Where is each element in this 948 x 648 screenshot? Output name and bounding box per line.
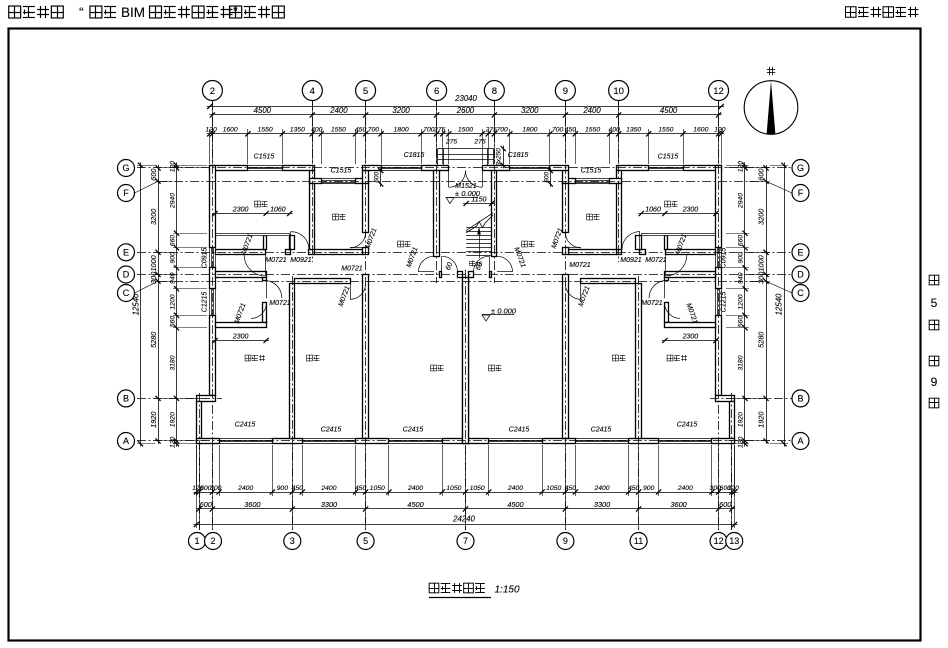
grid axis line C — [158, 281, 766, 283]
svg-text:5: 5 — [363, 86, 368, 97]
grid bubble G left — [118, 160, 135, 177]
svg-text:2400: 2400 — [593, 485, 609, 492]
svg-text:600: 600 — [200, 500, 212, 509]
grid bubble C left — [118, 285, 135, 302]
bottom dimension chain detailed — [192, 485, 739, 495]
interior wall grid 4 lower — [310, 184, 315, 250]
svg-text:120: 120 — [728, 485, 740, 492]
left dimension overall 12540 — [132, 162, 144, 446]
bottom wall A segment 3 — [356, 439, 389, 444]
svg-text:700: 700 — [368, 127, 380, 134]
window tag C2415 no.3 — [403, 427, 424, 434]
svg-text:24240: 24240 — [452, 515, 475, 524]
overall dimension 24240 label — [452, 515, 475, 524]
svg-text:1000: 1000 — [149, 255, 158, 271]
svg-text:7: 7 — [463, 536, 468, 546]
svg-text:3600: 3600 — [244, 500, 260, 509]
exterior wall G segment A (right mirror) — [684, 166, 722, 171]
room label living right — [489, 365, 502, 371]
hall wall at D (right mirror) — [665, 272, 716, 278]
svg-text:700: 700 — [423, 127, 435, 134]
window C2415 no.3 (right mirror) — [489, 438, 543, 443]
wall connector at grid 4 (right mirror) — [617, 171, 622, 184]
niche south wall (right mirror) — [665, 323, 716, 328]
room label living left — [431, 365, 444, 371]
svg-text:2940: 2940 — [738, 193, 745, 209]
window C0915 right wall — [716, 248, 722, 268]
door tag M0721 dining right — [512, 246, 526, 269]
svg-text:4: 4 — [310, 86, 315, 97]
svg-text:C: C — [123, 288, 130, 298]
svg-text:600: 600 — [374, 171, 381, 182]
door tag M0721 kitchen left — [365, 227, 379, 250]
room label bedroom top-left — [255, 201, 268, 207]
svg-text:1800: 1800 — [394, 127, 409, 134]
niche inner door M0721 — [251, 303, 267, 319]
room label bedroom bottom-right — [613, 355, 626, 361]
interior wall grid 3 upper (right mirror) — [636, 236, 642, 250]
svg-text:2400: 2400 — [407, 485, 423, 492]
bedroom south wall segment 2 (right mirror) — [640, 250, 646, 255]
door tag M0721 horizontal left — [265, 257, 287, 264]
recessed wall F segment B (right mirror) — [563, 179, 576, 184]
svg-text:600: 600 — [149, 169, 158, 181]
svg-text:1060: 1060 — [270, 206, 286, 213]
window C1815 — [381, 165, 421, 170]
interior wall grid 4 lower (right mirror) — [617, 184, 622, 250]
grid axis line 11 — [638, 276, 640, 530]
svg-text:450: 450 — [355, 127, 367, 134]
window tag C1515 top left — [254, 154, 275, 161]
grid axis line 5 — [365, 101, 367, 530]
svg-text:C2415: C2415 — [677, 422, 698, 429]
grid bubble 2 bottom — [205, 533, 222, 550]
niche east wall upper stub — [263, 278, 267, 281]
svg-text:9: 9 — [563, 536, 568, 546]
grid bubble 5 top — [356, 81, 376, 101]
svg-text:1920: 1920 — [170, 412, 177, 427]
top dimension chain major — [209, 106, 721, 118]
grid bubble 4 top — [302, 81, 322, 101]
svg-text:C2415: C2415 — [235, 422, 256, 429]
svg-text:3600: 3600 — [670, 500, 686, 509]
svg-text:10: 10 — [613, 86, 624, 97]
window tag C1815 right — [508, 152, 529, 159]
window tag C0915 left — [202, 248, 209, 269]
svg-text:9: 9 — [931, 375, 938, 389]
svg-text:1200: 1200 — [738, 294, 745, 309]
room label kitchen left — [333, 214, 346, 220]
svg-text:1050: 1050 — [546, 485, 561, 492]
svg-text:900: 900 — [643, 485, 655, 492]
window tag C1215 left — [202, 292, 209, 313]
svg-text:300: 300 — [757, 272, 766, 284]
svg-text:3300: 3300 — [321, 500, 337, 509]
svg-text:BIM: BIM — [121, 5, 145, 20]
svg-text:1350: 1350 — [290, 127, 305, 134]
left exterior wall lower — [210, 316, 216, 396]
kitchen east wall grid 5 lower stub (right mirror) — [563, 248, 569, 255]
right dimension chain major — [757, 165, 769, 444]
grid bubble 12 top — [709, 81, 729, 101]
svg-text:1550: 1550 — [331, 127, 346, 134]
room label bedroom bottom-left — [307, 355, 320, 361]
door tag M0721 master door right — [641, 300, 663, 307]
wall connector at grid 4 — [310, 171, 315, 184]
header quote open — [79, 4, 84, 20]
entrance steps 3x250 — [438, 149, 494, 166]
window tag C1515 top right — [658, 154, 679, 161]
svg-text:600: 600 — [757, 169, 766, 181]
svg-text:120: 120 — [170, 161, 177, 173]
window C1515 recessed — [321, 179, 355, 184]
room label bedroom top-right — [665, 201, 678, 207]
svg-text:C1515: C1515 — [254, 154, 275, 161]
interior wall grid 5 lower — [363, 275, 369, 439]
svg-text:M0721: M0721 — [569, 262, 591, 269]
svg-text:M0921: M0921 — [290, 257, 312, 264]
door tag M0721 dining left — [406, 246, 420, 269]
svg-text:3300: 3300 — [594, 500, 610, 509]
bedroom south wall segment 3 — [309, 250, 315, 255]
svg-text:C1515: C1515 — [658, 154, 679, 161]
bedroom south wall segment 1 (right mirror) — [666, 250, 716, 255]
svg-text:700: 700 — [552, 127, 564, 134]
grid bubble 9 bottom — [557, 533, 574, 550]
left exterior wall bottom section (right mirror) — [730, 402, 735, 444]
kitchen east wall grid 5 lower stub — [363, 248, 369, 255]
door tag M0721 bedroom top-left — [241, 233, 255, 256]
window tag C2415 no.5 — [591, 427, 612, 434]
svg-text:M1521: M1521 — [455, 183, 477, 190]
right dimension chain detailed — [738, 161, 748, 448]
header title text part 4 一级试题 — [230, 6, 285, 18]
door tag M0721 bedroom C wall left — [338, 285, 352, 308]
kitchen door M0721 in grid5 wall — [350, 232, 366, 248]
grid bubble 2 top — [202, 81, 222, 101]
grid bubble A left — [118, 433, 135, 450]
grid bubble A right — [792, 433, 809, 450]
svg-text:M0721: M0721 — [645, 257, 667, 264]
bathroom door M0721 at E wall (right mirror) — [622, 232, 640, 250]
grid bubble 13 bottom — [726, 533, 743, 550]
window tag C2415 no.6 — [677, 422, 698, 429]
svg-text:4500: 4500 — [254, 106, 272, 115]
grid bubble E left — [118, 244, 135, 261]
party wall grid 7 — [463, 278, 469, 444]
svg-text:C2415: C2415 — [509, 427, 530, 434]
stair hall south wall at D segment 2 — [458, 272, 463, 278]
svg-text:± 0.000: ± 0.000 — [455, 189, 481, 198]
header text right (China Graphics Society) — [846, 7, 919, 18]
kitchen south wall — [315, 250, 363, 255]
svg-text:11: 11 — [634, 536, 643, 546]
header quote close — [233, 4, 238, 20]
svg-text:2300: 2300 — [682, 333, 699, 340]
closet dimension 2300/1060 left — [212, 206, 293, 216]
svg-text:275: 275 — [473, 139, 486, 146]
grid axis line B left — [137, 398, 222, 400]
svg-text:9: 9 — [563, 86, 568, 97]
svg-text:B: B — [123, 394, 129, 404]
interior wall grid 3 — [290, 284, 295, 439]
svg-text:660: 660 — [170, 235, 177, 247]
left exterior wall upper — [210, 166, 216, 248]
svg-text:560: 560 — [738, 316, 745, 328]
svg-text:1550: 1550 — [258, 127, 273, 134]
svg-text:600: 600 — [543, 171, 550, 182]
left exterior wall bottom section — [197, 402, 202, 444]
steps dimension 3x250 — [496, 146, 506, 169]
closet dimension 2300/1060 right — [638, 206, 719, 216]
svg-text:900: 900 — [738, 252, 745, 264]
svg-text:F: F — [123, 188, 129, 198]
svg-text:450: 450 — [628, 485, 640, 492]
svg-text:3200: 3200 — [757, 209, 766, 225]
bubble leader C left — [135, 281, 159, 293]
window C2415 no.2 (right mirror) — [575, 438, 628, 443]
kitchen east wall grid 5 upper (right mirror) — [563, 184, 569, 233]
bedroom south wall segment 2 — [286, 250, 291, 255]
window C1515 recessed (right mirror) — [575, 179, 609, 184]
stair label 上16 glyph — [469, 261, 475, 267]
svg-text:8: 8 — [492, 86, 497, 97]
svg-text:3: 3 — [290, 536, 295, 546]
stair up arrow line — [477, 227, 481, 258]
svg-text:C0915: C0915 — [721, 248, 728, 269]
grid bubble B right — [792, 390, 809, 407]
svg-text:700: 700 — [496, 127, 508, 134]
header title text part 3 技能等级考试 — [150, 6, 233, 18]
bottom wall A segment 1 (right mirror) — [712, 439, 735, 444]
svg-text:120: 120 — [170, 436, 177, 448]
svg-text:1050: 1050 — [446, 485, 461, 492]
grid axis line A — [137, 440, 792, 442]
level marker living ±0.000 — [482, 307, 517, 322]
svg-text:5280: 5280 — [149, 332, 158, 348]
grid axis line 13 — [731, 393, 733, 530]
bottom extension lines — [197, 445, 735, 496]
svg-text:4500: 4500 — [660, 106, 678, 115]
bottom wall A segment 3 (right mirror) — [543, 439, 576, 444]
entrance door M1521 left leaf — [449, 171, 466, 188]
grid axis line 2 — [212, 101, 214, 530]
svg-text:2300: 2300 — [232, 333, 249, 340]
bedroom door M0921 at E wall (right mirror) — [666, 255, 687, 276]
svg-text:2: 2 — [210, 536, 215, 546]
lobby west wall grid 6 — [434, 171, 440, 257]
svg-text:C1515: C1515 — [581, 168, 602, 175]
right margin page number text 页 — [929, 320, 939, 330]
window tag C0915 right — [721, 248, 728, 269]
grid axis line B right — [710, 398, 792, 400]
grid axis line 12 — [718, 101, 720, 530]
svg-text:M0721: M0721 — [641, 300, 663, 307]
grid bubble 8 top — [484, 81, 504, 101]
master closet dimension 2300 left — [212, 333, 269, 343]
niche inner door M0721 (right mirror) — [665, 303, 681, 319]
svg-text:D: D — [123, 270, 130, 280]
step wall at B (right mirror) — [716, 396, 735, 402]
svg-text:900: 900 — [170, 252, 177, 264]
header title text part 1 第十九期 — [9, 6, 64, 18]
bottom wall A segment 4 — [443, 439, 466, 444]
door tag M0721 on D axis right — [569, 262, 591, 269]
svg-text:1550: 1550 — [585, 127, 600, 134]
header title text part 2 全国 — [90, 6, 116, 18]
closet divider wall — [264, 236, 267, 250]
left extension lines — [137, 166, 207, 444]
svg-text:450: 450 — [355, 485, 367, 492]
grid bubble 7 bottom — [457, 533, 474, 550]
hall wall at D — [216, 272, 267, 278]
kitchen south wall (right mirror) — [569, 250, 617, 255]
left exterior wall lower (right mirror) — [716, 316, 722, 396]
step wall at B — [197, 396, 216, 402]
bedroom south wall segment 1 — [216, 250, 266, 255]
svg-text:M0721: M0721 — [269, 300, 291, 307]
grid bubble E right — [792, 244, 809, 261]
bedroom door M0721 at C wall — [350, 284, 366, 300]
door tag M0721 niche room right — [684, 302, 698, 325]
svg-text:D: D — [797, 270, 804, 280]
svg-text:5: 5 — [931, 296, 938, 310]
scale label 1:150 — [494, 585, 519, 596]
room label kitchen right — [587, 214, 600, 220]
recessed wall F segment B — [356, 179, 369, 184]
svg-text:2600: 2600 — [456, 106, 475, 115]
svg-text:6: 6 — [434, 86, 439, 97]
bedroom door M0721 at C wall (right mirror) — [565, 284, 581, 300]
stair hall south wall at D segment 1 — [440, 272, 442, 278]
exterior wall G segment C (right mirror) — [550, 166, 569, 171]
svg-text:1060: 1060 — [645, 206, 661, 213]
top dimension overall 23040 — [207, 104, 724, 109]
door tag M1521 — [455, 183, 477, 190]
bathroom door M0721 at E wall — [291, 232, 309, 250]
grid bubble 9 top — [555, 81, 575, 101]
svg-text:± 0.000: ± 0.000 — [491, 307, 517, 316]
north label 北 — [767, 67, 775, 75]
svg-text:A: A — [797, 436, 803, 446]
bottom wall A segment 2 (right mirror) — [629, 439, 659, 444]
right margin page number 5 — [931, 296, 938, 310]
drawing title 首层平面图 — [429, 583, 485, 593]
window C0915 left wall — [210, 248, 216, 268]
niche east wall lower (right mirror) — [665, 303, 669, 323]
door tag M0721 kitchen right — [551, 227, 565, 250]
level marker entrance ±0.000 — [446, 189, 481, 204]
svg-text:660: 660 — [738, 235, 745, 247]
window C2415 no.3 — [389, 438, 443, 443]
svg-text:1050: 1050 — [470, 485, 485, 492]
living room door M0721 at D wall — [442, 256, 458, 272]
top extension lines — [210, 129, 722, 164]
svg-text:C2415: C2415 — [321, 427, 342, 434]
dining door M0721 at grid 6 wall (right mirror) — [497, 256, 513, 272]
grid axis line 10 — [618, 101, 620, 262]
bedroom north wall at C — [295, 279, 351, 284]
svg-text:1350: 1350 — [626, 127, 641, 134]
svg-text:1: 1 — [194, 536, 199, 546]
exterior wall G segment B — [283, 166, 315, 171]
stair break line — [466, 213, 493, 233]
kitchen east wall grid 5 upper — [363, 184, 369, 233]
svg-text:2: 2 — [210, 86, 215, 97]
door tag M0721 niche room — [234, 302, 248, 325]
svg-text:940: 940 — [738, 272, 745, 284]
grid bubble D left — [118, 266, 135, 283]
pier dimension 600 left — [374, 168, 384, 187]
svg-text:2400: 2400 — [329, 106, 348, 115]
svg-text:450: 450 — [565, 485, 577, 492]
step dimension 275 left — [445, 139, 458, 146]
door tag M0921 horizontal right — [620, 257, 642, 264]
svg-text:275: 275 — [433, 127, 446, 134]
living room door M0721 at D wall (right mirror) — [473, 256, 489, 272]
svg-text:2300: 2300 — [682, 206, 699, 213]
bubble leader C right — [766, 281, 792, 293]
entrance door M1521 right leaf — [465, 171, 482, 188]
svg-text:3x250: 3x250 — [496, 148, 503, 166]
room label master bedroom left — [245, 355, 265, 361]
bubble leader F right — [766, 181, 792, 193]
svg-text:1050: 1050 — [370, 485, 385, 492]
svg-text:600: 600 — [719, 500, 731, 509]
overall dimension 23040 label — [454, 94, 477, 103]
window C2415 no.2 — [302, 438, 355, 443]
bottom wall A segment 4 (right mirror) — [466, 439, 489, 444]
svg-text:1200: 1200 — [170, 294, 177, 309]
svg-text:1600: 1600 — [223, 127, 238, 134]
lobby west wall grid 6 (right mirror) — [492, 171, 497, 257]
stair hall south wall at D segment 2 (right mirror) — [469, 272, 474, 278]
north arrow symbol — [744, 81, 798, 135]
exterior wall G segment D (lobby pier) (right mirror) — [483, 166, 510, 171]
svg-text:12: 12 — [713, 86, 724, 97]
master bedroom door M0721 — [266, 280, 282, 298]
svg-text:C2415: C2415 — [591, 427, 612, 434]
svg-text:1920: 1920 — [738, 412, 745, 427]
grid axis line 9 — [565, 101, 567, 530]
window C2415 no.1 — [219, 438, 272, 443]
svg-text:C0915: C0915 — [202, 248, 209, 269]
grid bubble 5 bottom — [357, 533, 374, 550]
wall connector at grid 5 (right mirror) — [563, 171, 569, 184]
svg-text:2400: 2400 — [582, 106, 601, 115]
svg-text:450: 450 — [565, 127, 577, 134]
grid axis line G — [137, 167, 792, 169]
svg-text:3200: 3200 — [392, 106, 410, 115]
svg-text:120: 120 — [205, 127, 217, 134]
master bedroom door M0721 (right mirror) — [649, 280, 665, 298]
grid bubble C right — [792, 285, 809, 302]
svg-text:C1815: C1815 — [508, 152, 529, 159]
grid bubble B left — [118, 390, 135, 407]
exterior wall G segment D (lobby pier) — [422, 166, 449, 171]
pier dimension 600 right — [543, 168, 553, 187]
svg-text:F: F — [798, 188, 804, 198]
window C1215 right wall — [716, 289, 722, 316]
recessed wall F segment A — [310, 179, 322, 184]
svg-text:12540: 12540 — [775, 293, 784, 315]
stair hall south wall at D segment 1 (right mirror) — [490, 272, 492, 278]
svg-text:300: 300 — [210, 485, 222, 492]
door tag M0721 horizontal right — [645, 257, 667, 264]
exterior wall G segment A — [210, 166, 248, 171]
grid bubble 12 bottom — [710, 533, 727, 550]
bottom dimension overall 24240 — [193, 522, 737, 527]
